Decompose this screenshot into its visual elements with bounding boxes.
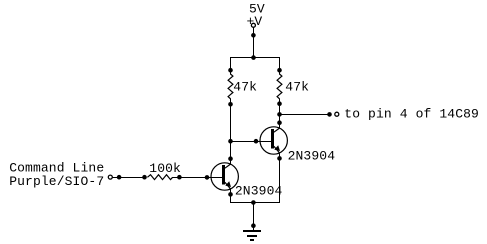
- svg-text:Purple/SIO-7: Purple/SIO-7: [9, 174, 104, 189]
- svg-text:2N3904: 2N3904: [288, 148, 336, 163]
- svg-text:47k: 47k: [233, 79, 257, 94]
- svg-text:+V: +V: [247, 14, 263, 29]
- svg-text:2N3904: 2N3904: [235, 183, 283, 198]
- svg-text:100k: 100k: [149, 161, 181, 176]
- svg-text:to pin 4 of 14C89: to pin 4 of 14C89: [344, 107, 479, 122]
- svg-text:47k: 47k: [285, 80, 309, 95]
